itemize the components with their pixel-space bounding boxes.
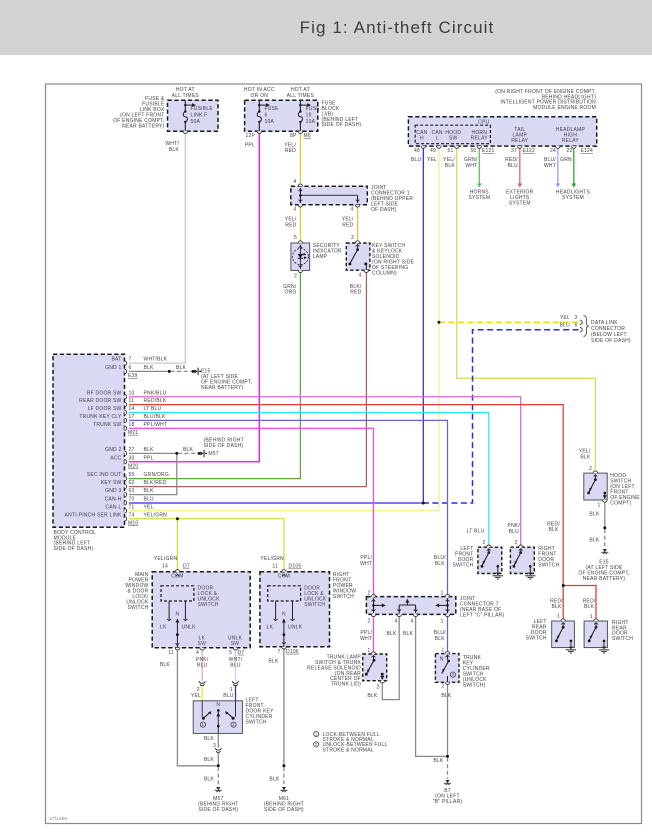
svg-text:YEL/GRN: YEL/GRN <box>154 556 178 562</box>
svg-text:2: 2 <box>441 684 444 690</box>
svg-text:NEAR BATTERY): NEAR BATTERY) <box>583 576 626 582</box>
left rear door switch <box>552 621 575 648</box>
wire BLK/RED key switch pin 4 to BCM KEY SW pin 62 <box>129 271 366 487</box>
svg-text:37: 37 <box>511 148 517 154</box>
ground M57 arrow <box>198 452 201 455</box>
svg-text:BLU: BLU <box>144 496 155 502</box>
svg-text:MODULE ENGINE ROOM: MODULE ENGINE ROOM <box>533 105 596 111</box>
in-line connector pin 3 <box>215 748 221 750</box>
svg-text:REAR DOOR SW: REAR DOOR SW <box>79 398 121 404</box>
svg-text:SWITCH: SWITCH <box>333 594 354 600</box>
svg-text:SWITCH: SWITCH <box>526 636 547 642</box>
svg-text:11: 11 <box>168 650 174 656</box>
svg-text:LINK F: LINK F <box>191 112 208 118</box>
svg-text:WHT: WHT <box>360 636 372 642</box>
svg-text:M6: M6 <box>304 133 311 139</box>
svg-text:SIDE OF DASH): SIDE OF DASH) <box>204 443 244 449</box>
svg-text:H: H <box>420 135 424 141</box>
svg-text:2: 2 <box>315 742 318 747</box>
svg-text:14: 14 <box>129 406 135 412</box>
wire PNK/BLU main power window switch pin 4 LK SW <box>201 648 203 682</box>
svg-text:SWITCH: SWITCH <box>246 719 267 725</box>
wire BLK GND2 to ground M57 <box>129 452 177 454</box>
svg-text:SYSTEM: SYSTEM <box>468 195 490 201</box>
svg-text:COMPT): COMPT) <box>610 500 631 506</box>
ground left front door switch <box>497 565 500 568</box>
wire BLU dashed to data link connector pin 6 <box>425 330 579 503</box>
svg-text:6: 6 <box>574 322 577 328</box>
wire YEL/GRN drop to main power window switch pin 14 <box>176 519 178 572</box>
svg-text:19: 19 <box>306 112 312 118</box>
svg-text:YEL/GRN: YEL/GRN <box>144 512 168 518</box>
svg-text:GND 3: GND 3 <box>105 488 121 494</box>
svg-text:SWITCH: SWITCH <box>452 563 473 569</box>
svg-text:BLU: BLU <box>223 693 234 699</box>
svg-text:2: 2 <box>367 618 370 624</box>
svg-text:WHT: WHT <box>360 561 372 567</box>
svg-text:BLK: BLK <box>580 454 591 460</box>
svg-text:BLK: BLK <box>144 365 155 371</box>
ground E15 arrow <box>192 370 195 373</box>
svg-text:BLK: BLK <box>204 757 215 763</box>
svg-text:NEAR BATTERY): NEAR BATTERY) <box>122 123 165 129</box>
svg-text:63: 63 <box>129 488 135 494</box>
svg-text:YEL: YEL <box>427 157 437 163</box>
svg-text:1: 1 <box>441 647 444 653</box>
svg-text:"B" PILLAR): "B" PILLAR) <box>433 799 463 805</box>
svg-text:BLK: BLK <box>435 636 446 642</box>
svg-text:1: 1 <box>590 614 593 620</box>
svg-text:COM: COM <box>171 574 183 580</box>
right front door switch <box>510 547 534 573</box>
hood switch <box>584 473 607 500</box>
svg-text:UNLK: UNLK <box>182 624 197 630</box>
wire YEL CAN-L from IPDM pin 49 to BCM pin 71 <box>129 146 439 511</box>
lock lever <box>202 717 205 720</box>
svg-text:SWITCH: SWITCH <box>304 602 325 608</box>
svg-text:30: 30 <box>129 455 135 461</box>
wire GRN/ORG security lamp pin 2 to BCM SEC IND OUT pin 55 <box>129 271 300 479</box>
svg-text:51: 51 <box>447 148 453 154</box>
svg-text:24: 24 <box>550 148 556 154</box>
svg-text:55: 55 <box>129 472 135 478</box>
svg-text:FUSE: FUSE <box>265 106 280 112</box>
wire BLK GND3 riser to GND2 junction <box>129 455 177 495</box>
svg-text:ORG: ORG <box>284 290 296 296</box>
svg-text:4: 4 <box>196 650 199 656</box>
svg-text:BLU: BLU <box>411 157 422 163</box>
svg-text:BLK: BLK <box>589 512 600 518</box>
svg-text:SEC IND OUT: SEC IND OUT <box>87 472 122 478</box>
svg-text:14: 14 <box>162 564 168 570</box>
svg-text:YEL: YEL <box>144 504 154 510</box>
IPDM intelligent power distribution module <box>408 117 596 146</box>
svg-text:18: 18 <box>129 422 135 428</box>
svg-text:PPL/WHT: PPL/WHT <box>144 422 168 428</box>
svg-text:1: 1 <box>367 648 370 654</box>
svg-text:8P: 8P <box>290 133 297 139</box>
svg-text:LEFT "C" PILLAR): LEFT "C" PILLAR) <box>460 612 505 618</box>
svg-text:COM: COM <box>278 574 290 580</box>
svg-text:NEAR BATTERY): NEAR BATTERY) <box>201 385 244 391</box>
svg-text:1: 1 <box>202 722 205 727</box>
svg-text:OR ON: OR ON <box>251 93 269 99</box>
junction YEL/GRN <box>176 517 179 520</box>
svg-text:12P: 12P <box>245 133 255 139</box>
svg-text:22: 22 <box>566 148 572 154</box>
svg-text:10: 10 <box>129 390 135 396</box>
svg-text:2: 2 <box>452 672 455 677</box>
svg-text:D105: D105 <box>289 564 302 570</box>
svg-text:CPU: CPU <box>478 119 489 125</box>
svg-text:SW: SW <box>198 641 207 647</box>
wire BLK door key cylinder switch pin 3 <box>217 733 219 747</box>
svg-text:17: 17 <box>129 414 135 420</box>
wire YEL/RED joint connector 1 to security indicator lamp pin 5 <box>299 205 301 243</box>
ground right front door switch <box>529 565 532 568</box>
wire YEL/RED fuse 19 to joint connector 1 pin 4 <box>299 131 301 186</box>
svg-text:ALL TIMES: ALL TIMES <box>287 93 315 99</box>
svg-text:GND 2: GND 2 <box>105 447 121 453</box>
svg-text:BAT: BAT <box>111 357 121 363</box>
svg-text:D7: D7 <box>183 564 190 570</box>
ground E15 under hood switch <box>603 549 607 552</box>
right front power window switch <box>260 572 330 647</box>
svg-text:CAN-H: CAN-H <box>105 496 122 502</box>
svg-text:11: 11 <box>129 398 135 404</box>
svg-text:BLK: BLK <box>176 365 187 371</box>
wire WHT/BLK from fusible link F to BCM BAT pin 7 <box>129 131 185 363</box>
svg-text:PPL: PPL <box>245 143 255 149</box>
main power window and door lock unlock switch <box>152 572 250 648</box>
junction CAN-H / DLC <box>422 502 425 505</box>
wire YEL/GRN BCM ANTI-PINCH SER LINK pin 74 <box>129 519 284 572</box>
svg-text:RELAY: RELAY <box>471 135 489 141</box>
svg-text:BLK: BLK <box>441 693 452 699</box>
svg-text:50: 50 <box>470 148 476 154</box>
security indicator lamp <box>291 243 310 270</box>
svg-text:BLK: BLK <box>144 488 155 494</box>
svg-text:N: N <box>282 611 286 617</box>
svg-text:RED: RED <box>285 148 296 154</box>
svg-text:TRUNK SW: TRUNK SW <box>93 422 121 428</box>
wire PPL/WHT joint connector 7 to trunk lamp switch pin 1 <box>373 614 375 654</box>
svg-text:E39: E39 <box>128 373 138 379</box>
svg-text:BLK: BLK <box>204 736 215 742</box>
svg-text:GND 1: GND 1 <box>105 365 121 371</box>
svg-text:RELAY: RELAY <box>562 138 580 144</box>
trunk key cylinder switch <box>435 654 459 683</box>
note 2 unlock between full stroke and normal <box>314 742 319 747</box>
svg-text:CAN-L: CAN-L <box>105 504 121 510</box>
svg-text:N: N <box>440 657 444 663</box>
svg-text:E124: E124 <box>581 148 594 154</box>
svg-text:BLU: BLU <box>230 662 241 668</box>
wire BLK trunk key cylinder switch pin 2 to ground B7 <box>447 685 449 757</box>
door lock and unlock switch inner box right <box>268 586 301 601</box>
svg-text:4: 4 <box>358 272 361 278</box>
joint connector 1 <box>291 186 368 205</box>
svg-text:SIDE OF DASH): SIDE OF DASH) <box>322 122 362 128</box>
ground M57 bottom <box>216 787 220 790</box>
svg-text:BLU: BLU <box>560 322 571 328</box>
svg-text:17f1465: 17f1465 <box>49 816 67 821</box>
svg-text:7: 7 <box>129 357 132 363</box>
wire BLU/BLK joint connector 7 to trunk key cylinder switch pin 1 <box>447 614 449 653</box>
svg-text:10A: 10A <box>265 119 275 125</box>
svg-text:GRN: GRN <box>560 157 572 163</box>
wire BLU CAN-H from IPDM pin 48 to BCM pin 70 <box>422 146 424 503</box>
svg-text:BLK: BLK <box>268 659 279 665</box>
svg-text:L: L <box>436 135 439 141</box>
svg-text:SWITCH: SWITCH <box>127 605 148 611</box>
data link connector <box>580 320 582 324</box>
svg-text:TRUNK LID): TRUNK LID) <box>331 682 361 688</box>
svg-text:4: 4 <box>350 206 353 212</box>
wire BLU/WHT headlamp high relay output arrow <box>557 146 559 184</box>
wire BLK main power window switch pin 11 to M57 junction <box>177 648 217 766</box>
svg-text:49: 49 <box>430 148 436 154</box>
wire YEL to door key cylinder switch <box>201 686 203 701</box>
svg-text:UNLK: UNLK <box>288 624 303 630</box>
svg-text:2: 2 <box>482 540 485 546</box>
svg-text:LK: LK <box>266 624 273 630</box>
svg-text:OF DASH): OF DASH) <box>371 207 397 213</box>
wire WHT/BLU main power window switch pin 5 UNLK SW <box>235 648 237 682</box>
wire BLK trunk lamp switch pin 2 to joint connector 7 pin 4 <box>382 614 399 699</box>
svg-text:BLK: BLK <box>144 447 155 453</box>
wire BLU to door key cylinder switch <box>235 686 237 701</box>
title bar <box>0 0 652 55</box>
wire GRN/WHT horn relay output arrow <box>478 146 480 184</box>
svg-text:WHT: WHT <box>465 163 477 169</box>
svg-text:SWITCH: SWITCH <box>612 636 633 642</box>
in-line connector pin 1 <box>232 681 238 683</box>
svg-text:7: 7 <box>277 649 280 655</box>
svg-text:RED: RED <box>285 222 296 228</box>
svg-text:BLK: BLK <box>169 147 180 153</box>
wire BLK joint connector 7 pin 4 to ground B7 <box>416 614 447 756</box>
svg-text:3: 3 <box>351 235 354 241</box>
wire PNK/BLU BCM RF DOOR SW pin 10 to right front door switch <box>129 397 521 548</box>
svg-text:RED: RED <box>350 290 361 296</box>
svg-text:Fig 1: Anti-theft Circuit: Fig 1: Anti-theft Circuit <box>300 18 495 37</box>
svg-text:YEL: YEL <box>191 693 201 699</box>
svg-text:6: 6 <box>265 112 268 118</box>
svg-text:71: 71 <box>129 504 135 510</box>
svg-text:SWITCH): SWITCH) <box>463 682 486 688</box>
fuse and fusible link box <box>168 100 219 131</box>
svg-text:M20: M20 <box>128 463 138 469</box>
svg-text:1: 1 <box>557 614 560 620</box>
svg-text:BLU: BLU <box>197 662 208 668</box>
trunk lamp switch and trunk release solenoid <box>363 654 387 681</box>
svg-text:BLK: BLK <box>445 163 456 169</box>
svg-text:2: 2 <box>514 540 517 546</box>
svg-text:3: 3 <box>574 315 577 321</box>
junction CAN-L / DLC <box>437 321 440 324</box>
svg-text:1: 1 <box>597 503 600 509</box>
svg-text:48: 48 <box>414 148 420 154</box>
wire BLK right front power window switch pin 7 to ground M61 <box>283 647 285 766</box>
svg-text:6: 6 <box>129 365 132 371</box>
svg-text:TRUNK KEY CLY: TRUNK KEY CLY <box>79 414 122 420</box>
svg-text:KEY SW: KEY SW <box>101 480 122 486</box>
svg-text:E121: E121 <box>482 148 495 154</box>
svg-text:YEL: YEL <box>560 315 570 321</box>
svg-text:BLK/RED: BLK/RED <box>144 480 167 486</box>
svg-text:LT BLU: LT BLU <box>467 529 485 535</box>
svg-text:M10: M10 <box>128 520 138 526</box>
svg-text:SYSTEM: SYSTEM <box>509 200 531 206</box>
svg-text:STROKE & NORMAL: STROKE & NORMAL <box>323 747 374 753</box>
fuse 6 10A <box>258 100 260 111</box>
body control module BCM <box>53 354 125 527</box>
svg-text:GRN/ORG: GRN/ORG <box>144 472 169 478</box>
svg-text:BLK: BLK <box>435 561 446 567</box>
svg-text:10A: 10A <box>306 119 316 125</box>
svg-text:SYSTEM: SYSTEM <box>562 195 584 201</box>
svg-text:RF DOOR SW: RF DOOR SW <box>87 390 122 396</box>
svg-text:5: 5 <box>294 235 297 241</box>
CPU inner box <box>415 125 490 144</box>
wire YEL/RED joint connector 1 to key switch pin 3 <box>357 205 359 243</box>
ground right rear door switch <box>603 640 606 643</box>
wire PPL/WHT BCM TRUNK SW pin 18 to joint connector 7 pin 2 <box>129 428 374 596</box>
svg-text:50A: 50A <box>191 119 201 125</box>
svg-text:N: N <box>175 611 179 617</box>
svg-text:SIDE OF DASH): SIDE OF DASH) <box>54 546 94 552</box>
svg-text:4: 4 <box>394 618 397 624</box>
wire YEL/BLK from IPDM HOOD SW pin 51 to hood switch pin 2 <box>457 146 596 471</box>
wire PPL from fuse 6 to BCM ACC pin 30 <box>129 131 259 461</box>
svg-text:WHT: WHT <box>544 163 556 169</box>
svg-text:SWITCH: SWITCH <box>198 602 219 608</box>
svg-text:70: 70 <box>129 496 135 502</box>
svg-text:SWITCH: SWITCH <box>538 563 559 569</box>
note mark 1 <box>200 722 205 727</box>
svg-text:WHT/BLK: WHT/BLK <box>144 357 168 363</box>
center pole <box>217 709 220 712</box>
svg-text:LK: LK <box>160 624 167 630</box>
key switch and keylock solenoid <box>346 243 370 270</box>
svg-text:3: 3 <box>213 743 216 749</box>
svg-text:62: 62 <box>129 480 135 486</box>
right rear door switch <box>584 621 607 648</box>
svg-text:BLK: BLK <box>183 447 194 453</box>
svg-text:BLK: BLK <box>367 693 378 699</box>
svg-text:LF DOOR SW: LF DOOR SW <box>88 406 122 412</box>
svg-text:74: 74 <box>129 512 135 518</box>
svg-text:1: 1 <box>440 590 443 596</box>
svg-text:1: 1 <box>440 618 443 624</box>
svg-text:M21: M21 <box>128 430 138 436</box>
ground M61 <box>282 787 286 790</box>
wire LT BLU BCM LF DOOR SW pin 14 to left front door switch <box>129 413 489 548</box>
svg-text:N: N <box>216 702 220 708</box>
svg-text:ANTI-PINCH SER LINK: ANTI-PINCH SER LINK <box>65 512 122 518</box>
svg-text:SW: SW <box>231 641 240 647</box>
svg-text:BLU/BLK: BLU/BLK <box>144 414 167 420</box>
fuse block J/B <box>245 100 318 131</box>
svg-text:E122: E122 <box>523 148 536 154</box>
svg-text:RED/BLK: RED/BLK <box>144 398 167 404</box>
note 1 lock between full stroke and normal <box>314 731 319 736</box>
wire BLU/BLK BCM TRUNK KEY CLY pin 17 to joint connector 7 pin 1 <box>129 420 448 596</box>
svg-text:M57: M57 <box>208 451 218 457</box>
svg-text:LAMP: LAMP <box>313 254 328 260</box>
svg-text:PPL: PPL <box>144 455 154 461</box>
svg-text:2: 2 <box>376 684 379 690</box>
svg-text:SW: SW <box>449 135 458 141</box>
svg-text:4: 4 <box>293 179 296 185</box>
svg-text:SIDE OF DASH): SIDE OF DASH) <box>264 807 304 813</box>
svg-text:2: 2 <box>232 722 235 727</box>
svg-text:D106: D106 <box>286 649 299 655</box>
wire YEL dashed to data link connector pin 3 <box>439 321 579 323</box>
joint connector 7 <box>366 597 455 615</box>
svg-text:COLUMN): COLUMN) <box>372 270 397 276</box>
svg-text:ALL TIMES: ALL TIMES <box>172 93 200 99</box>
svg-text:BLK: BLK <box>386 631 397 637</box>
svg-text:BLK: BLK <box>551 604 562 610</box>
svg-text:RED: RED <box>342 222 353 228</box>
svg-text:BLU: BLU <box>509 529 520 535</box>
svg-text:ACC: ACC <box>110 455 121 461</box>
svg-text:2: 2 <box>294 273 297 279</box>
wire GRN headlamp high relay output arrow <box>573 146 575 184</box>
left front door switch <box>478 547 502 573</box>
junction RED/BLK split <box>562 584 565 587</box>
svg-text:BLK: BLK <box>584 604 595 610</box>
svg-text:5: 5 <box>229 650 232 656</box>
left front door key cylinder switch <box>193 701 242 734</box>
wire BLK GND1 to ground E15 <box>129 370 169 372</box>
ground B7 <box>445 780 449 783</box>
wire BLK to ground M57 <box>217 753 219 766</box>
svg-text:BLK: BLK <box>548 527 559 533</box>
svg-text:LT BLU: LT BLU <box>144 406 162 412</box>
svg-text:BLK: BLK <box>204 776 215 782</box>
door lock and unlock switch inner box <box>161 586 194 601</box>
unlock lever <box>232 717 235 720</box>
svg-text:4: 4 <box>293 206 296 212</box>
note mark 2 <box>231 722 236 727</box>
svg-text:SIDE OF DASH): SIDE OF DASH) <box>591 338 631 344</box>
svg-text:BLK: BLK <box>160 662 171 668</box>
svg-text:BLK: BLK <box>589 538 600 544</box>
svg-text:D7: D7 <box>238 650 245 656</box>
in-line connector pin 2 <box>199 681 205 683</box>
wire RED/BLK branch to right rear door switch <box>563 586 596 622</box>
svg-text:RELAY: RELAY <box>511 138 529 144</box>
svg-text:FUSE: FUSE <box>306 106 321 112</box>
fuse 19 10A <box>299 100 301 111</box>
svg-text:BLU: BLU <box>508 163 519 169</box>
svg-text:BLK: BLK <box>403 631 414 637</box>
svg-text:2: 2 <box>589 466 592 472</box>
svg-text:27: 27 <box>129 447 135 453</box>
svg-text:BLK: BLK <box>433 758 444 764</box>
svg-text:PNK/BLU: PNK/BLU <box>144 390 167 396</box>
svg-text:YEL/GRN: YEL/GRN <box>260 556 284 562</box>
svg-text:FUSIBLE: FUSIBLE <box>191 106 214 112</box>
svg-text:BLK: BLK <box>269 776 280 782</box>
svg-text:11: 11 <box>272 564 278 570</box>
ground left rear door switch <box>570 640 573 643</box>
svg-text:SIDE OF DASH): SIDE OF DASH) <box>198 807 238 813</box>
svg-text:2: 2 <box>367 590 370 596</box>
